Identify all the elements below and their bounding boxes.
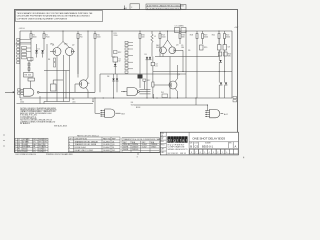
svg-text:i: i [171,138,172,143]
svg-text:W1: W1 [161,92,164,94]
svg-text:DEC FORM NO: DEC FORM NO [168,153,179,155]
svg-text:15-3639: 15-3639 [103,144,110,146]
svg-text:0: 0 [226,152,227,154]
svg-text:TRANSISTOR DEC 2894-3B: TRANSISTOR DEC 2894-3B [75,140,99,143]
svg-text:D5: D5 [145,54,147,56]
svg-text:Q6: Q6 [87,83,89,85]
svg-text:REV: REV [229,142,232,144]
svg-text:R12: R12 [118,52,121,54]
svg-text:PRINTED CIRCUIT BOARD REV: PRINTED CIRCUIT BOARD REV [46,153,74,156]
svg-text:THIS SCHEMATIC IS FURNISHED ON: THIS SCHEMATIC IS FURNISHED ONLY FOR TES… [17,12,93,15]
svg-text:16-9008: 16-9008 [103,150,110,152]
svg-text:DRB 102: DRB 102 [180,153,186,155]
svg-text:15-2894: 15-2894 [103,141,110,143]
svg-text:3009: 3009 [156,47,160,49]
svg-text:+10V H: +10V H [19,28,26,30]
svg-text:.001: .001 [72,101,76,103]
svg-text:R14: R14 [18,151,21,153]
svg-text:R.H: R.H [161,139,163,141]
svg-text:B: B [190,144,192,148]
svg-text:1500: 1500 [162,37,166,39]
svg-text:2: 2 [217,152,218,154]
svg-text:3000: 3000 [33,37,37,39]
svg-text:8: 8 [69,147,70,149]
svg-text:180: 180 [181,47,184,49]
svg-text:Q3: Q3 [176,45,178,47]
svg-text:4: 4 [209,152,210,154]
svg-text:SEE A-ML-B303: SEE A-ML-B303 [54,125,67,128]
svg-text:CIRCUITS ARE PROPRIETARY IN NA: CIRCUITS ARE PROPRIETARY IN NATURE AND S… [17,15,91,18]
svg-text:D8: D8 [107,76,109,78]
svg-text:CS: CS [194,144,198,148]
svg-text:.01: .01 [155,66,158,68]
svg-text:100: 100 [142,37,145,39]
svg-text:DESCRIPTION: DESCRIPTION [75,138,88,140]
svg-text:DIODE D-664: DIODE D-664 [75,147,86,149]
svg-text:TRANSISTOR DEC 3639B: TRANSISTOR DEC 3639B [75,143,97,146]
svg-text:1N645: 1N645 [151,147,156,149]
svg-text:DL1: DL1 [112,150,115,152]
svg-text:SIZE: SIZE [190,142,193,144]
svg-text:C7 .01MFD: C7 .01MFD [175,26,185,28]
svg-text:664: 664 [131,104,134,106]
svg-text:R18: R18 [190,35,193,37]
svg-text:1500: 1500 [23,151,27,153]
svg-text:R21: R21 [212,35,215,37]
svg-text:680: 680 [228,56,231,58]
svg-text:R4: R4 [48,59,50,61]
svg-text:PART NO: PART NO [103,137,111,140]
svg-text:B03: B03 [121,113,124,115]
svg-text:4: 4 [69,144,70,146]
svg-text:i: i [177,138,178,143]
svg-text:3: 3 [213,152,214,154]
svg-text:NUMBER: NUMBER [205,142,211,144]
svg-text:7: 7 [195,152,196,154]
svg-text:l: l [186,138,187,143]
svg-text:Q5: Q5 [178,74,180,76]
svg-text:1500: 1500 [97,37,101,39]
svg-text:D9: D9 [188,50,190,52]
svg-text:ENG: ENG [161,141,164,143]
svg-text:5%: 5% [33,151,36,153]
svg-text:1: 1 [222,152,223,154]
svg-text:11-0664: 11-0664 [103,147,109,149]
svg-text:ONE SHOT DELAY B303: ONE SHOT DELAY B303 [192,137,225,141]
svg-text:COPYRIGHT 1968 BY DIGITAL EQUI: COPYRIGHT 1968 BY DIGITAL EQUIPMENT CORP… [17,17,68,20]
svg-text:680: 680 [182,37,185,39]
svg-text:D1: D1 [38,49,40,51]
svg-text:3000: 3000 [226,37,230,39]
svg-text:g: g [173,138,175,143]
svg-text:1/4W: 1/4W [39,151,43,153]
svg-text:B303-0-1: B303-0-1 [202,144,214,148]
svg-text:2N3009: 2N3009 [132,149,138,151]
svg-text:R17: R17 [147,80,150,82]
svg-text:7500: 7500 [46,37,50,39]
svg-text:DELAY LINE 2.5 USEC: DELAY LINE 2.5 USEC [75,149,94,152]
svg-text:1: 1 [69,150,70,152]
svg-text:B303: B303 [136,107,140,109]
svg-text:Q2: Q2 [72,45,74,47]
svg-text:CODE: CODE [194,142,198,144]
svg-text:PROD: PROD [161,145,165,147]
svg-text:3009B: 3009B [123,149,129,151]
svg-text:B CS REV FOR ECO B303-00002 JW: B CS REV FOR ECO B303-00002 JW 4-12 [147,8,182,10]
svg-text:6: 6 [200,152,201,154]
svg-text:2200: 2200 [114,35,118,37]
svg-text:D-662: D-662 [142,147,147,149]
svg-text:A: A [235,144,237,148]
svg-text:Q1: Q1 [52,45,54,47]
svg-text:5: 5 [204,152,205,154]
svg-text:C8: C8 [228,47,230,49]
svg-text:A-02: A-02 [224,113,228,116]
svg-text:AT A AND B: AT A AND B [20,122,30,125]
svg-text:d: d [168,138,170,143]
svg-text:DEC FORM NO DRA 110: DEC FORM NO DRA 110 [16,153,36,156]
svg-text:2: 2 [69,141,70,143]
svg-text:CORPORATION: CORPORATION [168,146,185,149]
svg-text:3000: 3000 [204,37,208,39]
svg-text:TRANSISTOR & DIODE CONVERSION: TRANSISTOR & DIODE CONVERSION CHART [123,138,163,141]
svg-text:82: 82 [119,61,121,63]
svg-text:Q3: Q3 [112,144,114,146]
svg-text:Q1: Q1 [112,141,114,143]
svg-text:1: 1 [15,151,16,153]
svg-text:R19: R19 [204,47,207,49]
svg-text:8: 8 [191,152,192,154]
svg-text:1500: 1500 [20,102,24,104]
svg-text:L1: L1 [154,36,156,38]
svg-text:A SN PREFIX CHANGE PER ECO B30: A SN PREFIX CHANGE PER ECO B303-0001 [147,4,184,7]
svg-text:750: 750 [80,37,83,39]
svg-text:603: 603 [28,75,31,77]
svg-text:D1: D1 [112,147,114,149]
